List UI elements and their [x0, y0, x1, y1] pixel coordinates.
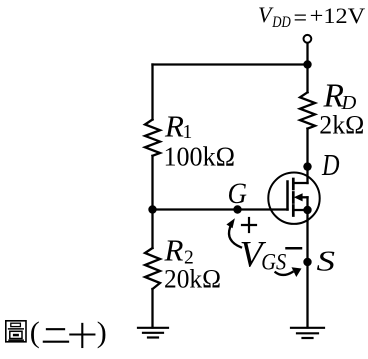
- resistor R2: [145, 248, 160, 289]
- svg-text:S: S: [317, 246, 336, 278]
- mosfet drain lead: [293, 182, 307, 184]
- mosfet channel segment middle: [292, 193, 295, 203]
- minus sign VGS: [287, 247, 302, 250]
- svg-text:+12V: +12V: [310, 3, 366, 28]
- curved arrow upper (toward G): [229, 228, 241, 248]
- node D dot: [303, 162, 311, 170]
- label S: [317, 246, 336, 278]
- svg-text:1: 1: [183, 122, 193, 143]
- svg-text:20kΩ: 20kΩ: [164, 264, 221, 294]
- mosfet channel segment bottom: [292, 206, 295, 216]
- wire gate horizontal: [153, 208, 288, 210]
- wire R2 to ground: [151, 289, 153, 328]
- label VGS: [240, 234, 287, 275]
- wire right rail upper: [306, 65, 308, 93]
- mosfet Q1 body circle: [268, 173, 319, 224]
- curved arrow lower (toward S): [276, 272, 293, 275]
- svg-text:): ): [97, 316, 107, 349]
- svg-text:(: (: [30, 316, 40, 349]
- ground left: [138, 328, 168, 338]
- caption: CJK 圖 glyph drawn: [6, 321, 26, 342]
- label G: [228, 178, 248, 210]
- wire left rail upper: [151, 65, 153, 120]
- terminal VDD (open circle): [304, 35, 312, 43]
- svg-text:R: R: [164, 233, 184, 268]
- svg-text:R: R: [164, 108, 184, 143]
- caption parenthesis ): [97, 316, 107, 349]
- node G dot: [233, 205, 241, 213]
- svg-text:2kΩ: 2kΩ: [319, 110, 364, 140]
- mosfet channel segment top: [292, 179, 295, 189]
- mosfet body arrowhead: [294, 193, 303, 201]
- label R2: [164, 233, 222, 294]
- wire left rail middle: [151, 156, 153, 248]
- mosfet source junction dot: [303, 206, 311, 214]
- node S dot: [303, 258, 311, 266]
- node junction left (gate node): [148, 205, 156, 213]
- svg-text:DD: DD: [271, 14, 290, 31]
- resistor R1: [145, 120, 160, 156]
- label RD: [319, 78, 364, 140]
- wire top horizontal: [153, 63, 308, 65]
- mosfet gate bar: [286, 182, 289, 210]
- wire source down: [306, 210, 308, 328]
- svg-text:D: D: [321, 148, 339, 182]
- mosfet body arrow line: [301, 196, 308, 198]
- svg-text:G: G: [228, 178, 248, 210]
- plus sign VGS: [242, 218, 256, 232]
- label D: [321, 148, 339, 182]
- ground right: [291, 328, 324, 338]
- svg-text:=: =: [294, 6, 308, 32]
- label VDD = +12V: [258, 2, 365, 32]
- wire RD to drain: [306, 129, 308, 183]
- resistor RD: [300, 92, 315, 128]
- label R1: [164, 108, 236, 171]
- caption parenthesis (: [30, 316, 40, 349]
- caption CJK 十: [70, 324, 94, 347]
- svg-text:GS: GS: [261, 249, 286, 274]
- caption CJK 二: [44, 329, 68, 342]
- wire terminal to top node: [306, 44, 308, 64]
- svg-text:100kΩ: 100kΩ: [164, 142, 236, 172]
- node junction top: [303, 60, 311, 68]
- mosfet source lead: [293, 209, 307, 211]
